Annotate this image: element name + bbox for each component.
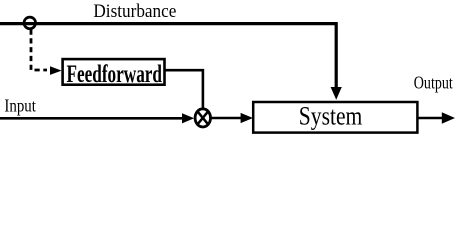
svg-text:Input: Input: [4, 95, 36, 115]
svg-text:System: System: [299, 103, 363, 132]
svg-text:Disturbance: Disturbance: [93, 0, 176, 21]
svg-text:Output: Output: [414, 74, 453, 93]
svg-text:Feedforward: Feedforward: [67, 60, 163, 88]
